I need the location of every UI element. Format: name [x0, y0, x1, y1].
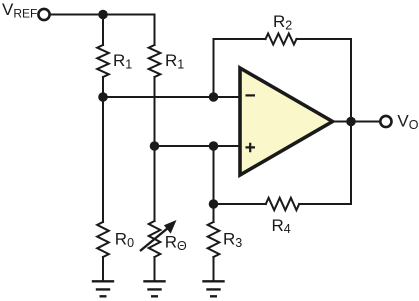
- junction dot output node: [346, 117, 356, 127]
- junction dot inverting node: [98, 92, 108, 102]
- wire R0 column: [102, 97, 104, 222]
- junction dot top rail: [98, 10, 108, 20]
- wire R2 rail left: [214, 38, 266, 40]
- thermistor arrow head: [164, 220, 177, 234]
- wire R3 to ground: [213, 257, 215, 281]
- svg-text:R3: R3: [223, 230, 242, 250]
- thermistor RTheta: [149, 221, 161, 257]
- ground (RTheta): [143, 281, 165, 296]
- svg-text:VO: VO: [397, 112, 418, 132]
- wire noninverting input row: [155, 145, 241, 147]
- wire top rail: [51, 14, 155, 16]
- ground (R0): [92, 281, 114, 296]
- thermistor arrow shaft: [140, 228, 169, 252]
- wire R3 column: [213, 204, 215, 222]
- wire R4 rail left: [214, 203, 266, 205]
- resistor R3: [208, 222, 220, 257]
- wire right R1 top drop: [154, 15, 156, 46]
- wire RTheta to ground: [154, 257, 156, 281]
- wire right R1 bottom: [154, 77, 156, 146]
- wire R0 to ground: [102, 257, 104, 281]
- wire plus node drop: [213, 146, 215, 204]
- wire left R1 top drop: [102, 15, 104, 46]
- svg-text:VREF: VREF: [2, 0, 37, 20]
- resistor R2: [266, 34, 297, 45]
- wire inverting input row: [103, 96, 240, 98]
- wire feedback riser: [213, 39, 215, 97]
- op-amp U1: [240, 68, 333, 175]
- resistor R0: [97, 222, 109, 257]
- resistor R1 (right): [149, 45, 161, 77]
- junction dot R3/R4: [209, 199, 219, 209]
- svg-text:R0: R0: [115, 230, 134, 250]
- wire R4 rail right: [299, 122, 351, 205]
- junction dot feedback tap: [209, 92, 219, 102]
- junction dot plus branch: [209, 141, 219, 151]
- resistor R1 (left): [97, 45, 109, 77]
- wire R2 rail right: [297, 39, 352, 122]
- svg-text:R4: R4: [272, 216, 291, 236]
- svg-text:R1: R1: [113, 51, 132, 71]
- svg-text:R2: R2: [273, 12, 292, 32]
- resistor R4: [266, 198, 299, 210]
- op-amp plus sign: [246, 143, 256, 153]
- junction dot noninverting node: [150, 141, 160, 151]
- ground (R3): [202, 281, 224, 296]
- terminal VREF: [38, 9, 49, 20]
- svg-text:R1: R1: [165, 51, 184, 71]
- op-amp minus sign: [246, 94, 256, 96]
- wire output lead: [333, 121, 380, 123]
- wire left R1 bottom: [102, 77, 104, 97]
- wire RTheta column: [154, 146, 156, 221]
- terminal VO: [380, 116, 391, 127]
- svg-text:RΘ: RΘ: [165, 233, 187, 253]
